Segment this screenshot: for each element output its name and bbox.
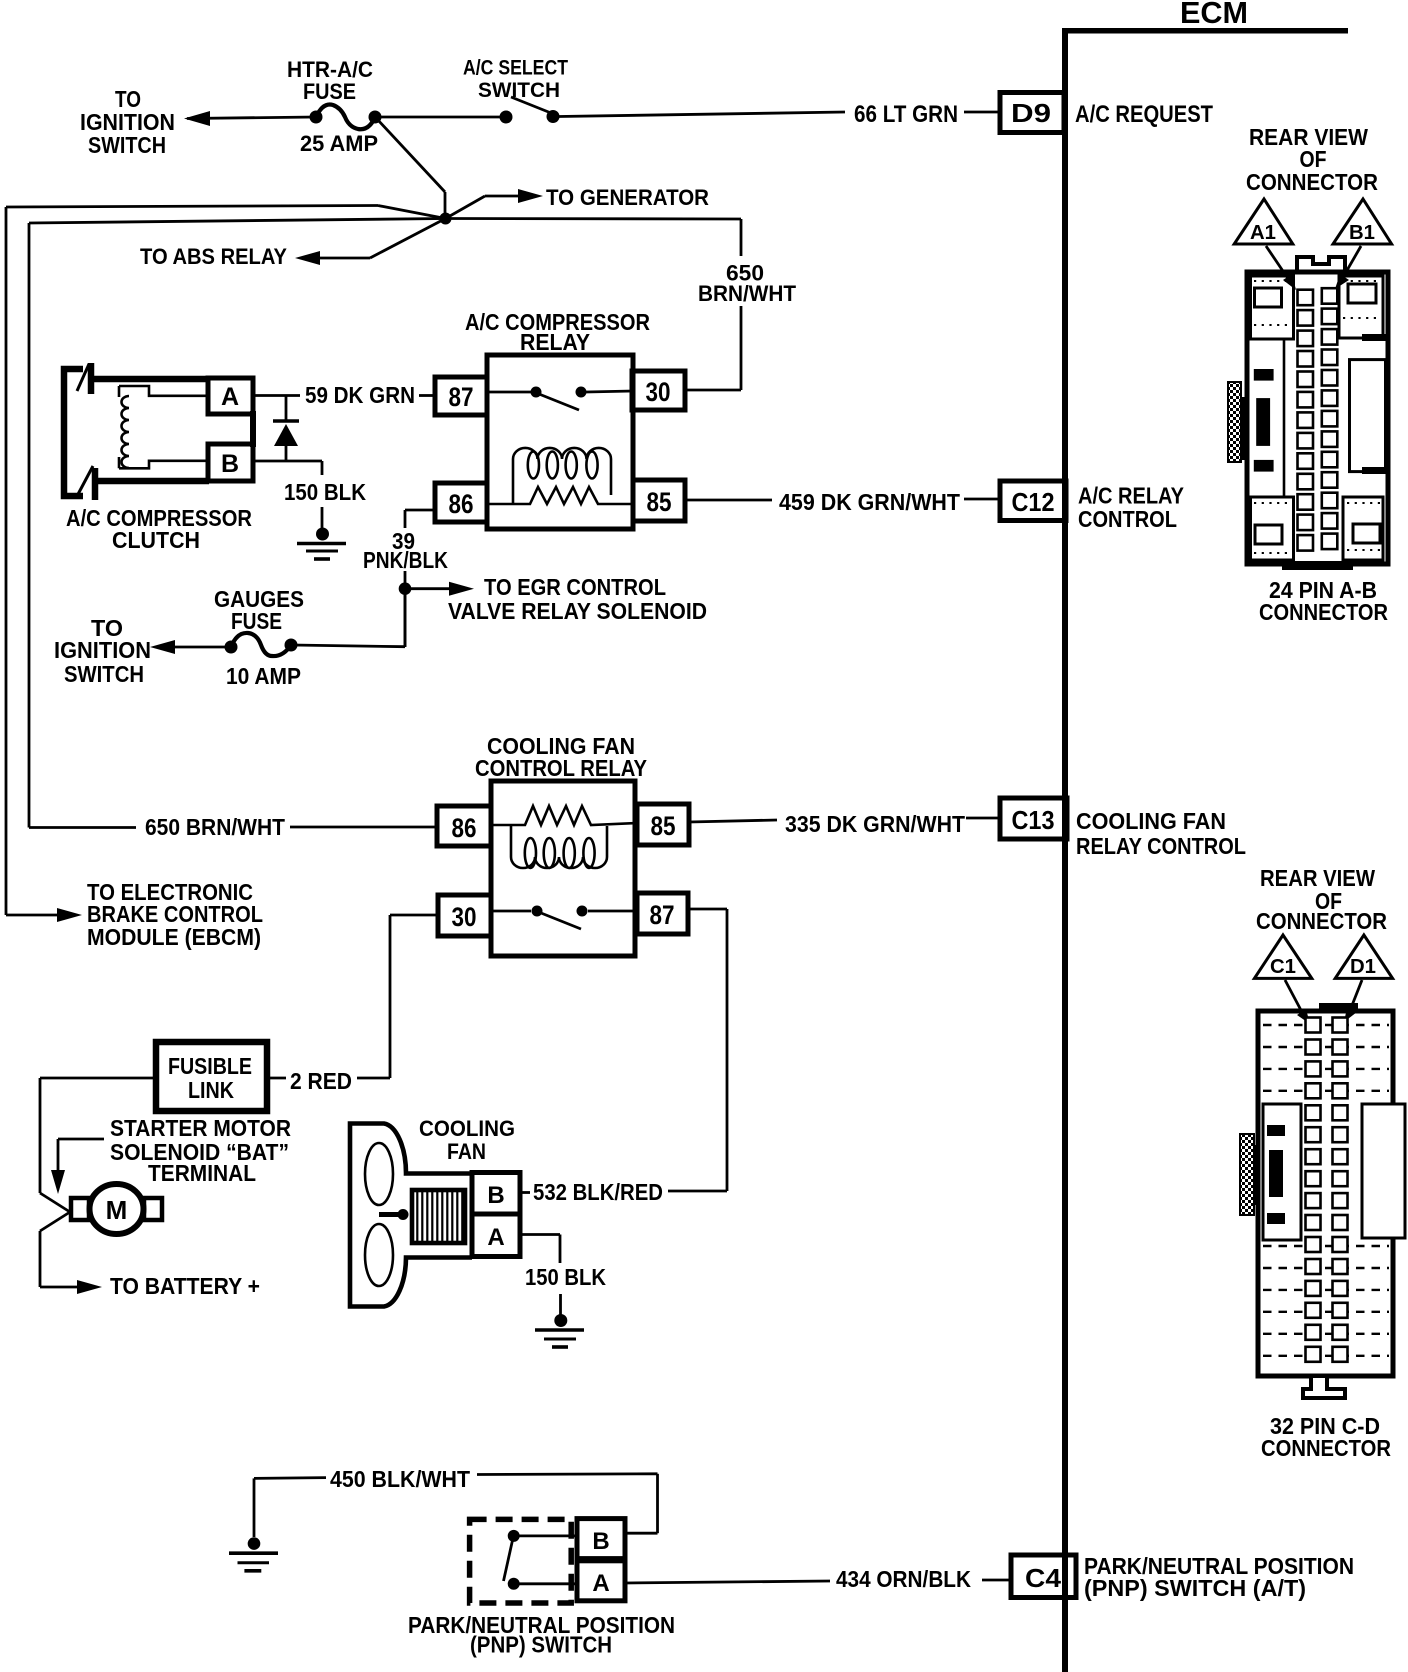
- relay contact switch (cooling fan relay): [491, 906, 637, 930]
- label 24 PIN A-B CONNECTOR: [1259, 577, 1388, 625]
- clutch A-B terminal link: [250, 411, 256, 447]
- fusible link F3: [156, 1042, 267, 1111]
- svg-text:D1: D1: [1350, 956, 1376, 978]
- svg-text:A: A: [221, 383, 239, 411]
- wire 335 DK GRN/WHT: pin 85 to C13: [689, 811, 1000, 837]
- pin pointer D1 (triangle): [1335, 935, 1392, 1022]
- relay contact switch (A/C compressor relay): [487, 387, 633, 411]
- pin 85 (A/C compressor relay): [633, 480, 685, 521]
- relay K1 A/C COMPRESSOR RELAY: [465, 309, 650, 529]
- svg-text:FUSE: FUSE: [231, 608, 282, 634]
- switch A/C SELECT: [463, 57, 568, 124]
- svg-text:(PNP) SWITCH (A/T): (PNP) SWITCH (A/T): [1084, 1575, 1306, 1601]
- A/C compressor clutch pulley bracket: [64, 363, 209, 500]
- svg-text:30: 30: [646, 377, 671, 407]
- svg-text:A/C RELAY: A/C RELAY: [1078, 483, 1184, 509]
- svg-text:CONNECTOR: CONNECTOR: [1256, 908, 1387, 934]
- svg-text:D9: D9: [1011, 98, 1051, 128]
- PNP terminal A: [577, 1561, 625, 1601]
- 24 pin connector pin cavities: [1298, 288, 1338, 550]
- 32 pin C-D connector body: [1258, 1003, 1393, 1376]
- svg-text:COOLING: COOLING: [419, 1116, 515, 1141]
- svg-text:C12: C12: [1012, 487, 1055, 517]
- svg-text:TERMINAL: TERMINAL: [148, 1160, 256, 1186]
- ground G3 (450 BLK/WHT): [229, 1537, 278, 1571]
- svg-text:TO BATTERY +: TO BATTERY +: [110, 1273, 260, 1299]
- diode CR1 across clutch coil: [273, 396, 299, 462]
- svg-text:B: B: [221, 450, 239, 478]
- wire: junction to 650 BRN/WHT bus: [29, 219, 446, 828]
- label TO ELECTRONIC BRAKE CONTROL MODULE (EBCM): [87, 879, 263, 950]
- pin pointer B1 (triangle): [1333, 199, 1392, 289]
- svg-text:10 AMP: 10 AMP: [226, 663, 301, 689]
- svg-text:RELAY: RELAY: [520, 329, 590, 355]
- node: 39 PNK/BLK splice: [399, 582, 412, 595]
- clutch terminal B: [208, 444, 253, 481]
- svg-text:B1: B1: [1349, 222, 1375, 244]
- cooling fan shroud: [350, 1124, 472, 1307]
- 24 pin connector bottom key tab: [1282, 561, 1353, 570]
- label PARK/NEUTRAL POSITION (PNP) SWITCH: [408, 1612, 675, 1658]
- svg-text:FUSE: FUSE: [303, 79, 356, 104]
- ECM pin C4: [1011, 1555, 1076, 1598]
- label COOLING FAN RELAY CONTROL: [1076, 808, 1246, 859]
- pin 30 (A/C compressor relay): [632, 371, 685, 410]
- svg-text:150 BLK: 150 BLK: [284, 479, 366, 505]
- ECM pin C12: [1000, 481, 1066, 521]
- fan terminal block: [472, 1173, 520, 1257]
- svg-text:SWITCH: SWITCH: [88, 132, 166, 158]
- relay coil (A/C compressor relay): [487, 448, 633, 504]
- svg-text:TO GENERATOR: TO GENERATOR: [546, 185, 709, 210]
- fan hub shaft: [379, 1209, 409, 1220]
- svg-text:C4: C4: [1025, 1563, 1062, 1593]
- wire+arrow TO EGR CONTROL VALVE RELAY SOLENOID: [411, 574, 707, 624]
- wire 450 BLK/WHT to ground: [254, 1466, 658, 1537]
- svg-text:FAN: FAN: [447, 1139, 486, 1164]
- wire: clutch B to ground: [253, 461, 322, 528]
- svg-text:459 DK GRN/WHT: 459 DK GRN/WHT: [779, 489, 960, 515]
- svg-text:66 LT GRN: 66 LT GRN: [854, 101, 958, 128]
- ECM module boundary line: [1062, 28, 1348, 1672]
- node: main splice junction: [440, 213, 452, 225]
- svg-text:COOLING FAN: COOLING FAN: [1076, 808, 1226, 834]
- 32 pin connector pin cavities: [1306, 1018, 1348, 1362]
- wire 39 PNK/BLK from pin 86: [363, 510, 448, 647]
- pin 86 (A/C compressor relay): [435, 483, 487, 522]
- wire 532 BLK/RED: fan B to relay pin 87: [520, 909, 727, 1205]
- wire 459 DK GRN/WHT: pin 85 to C12: [685, 489, 1000, 515]
- svg-text:PNK/BLK: PNK/BLK: [363, 547, 448, 573]
- wire 434 ORN/BLK: PNP A to C4: [625, 1566, 1011, 1592]
- svg-text:87: 87: [449, 382, 474, 412]
- 24 pin connector left latch detail: [1254, 339, 1284, 497]
- relay K2 COOLING FAN CONTROL RELAY: [475, 733, 647, 956]
- wire 650 BRN/WHT to pin 86: [29, 814, 437, 840]
- 32 pin connector bottom key tab: [1303, 1376, 1345, 1398]
- svg-text:IGNITION: IGNITION: [54, 637, 151, 663]
- 24 pin connector corner block top-right: [1339, 276, 1383, 338]
- label REAR VIEW OF CONNECTOR (32 pin): [1256, 865, 1387, 934]
- 32 pin connector right cavity: [1362, 1104, 1405, 1238]
- pin 86 (cooling fan relay): [437, 806, 491, 846]
- svg-text:A1: A1: [1250, 222, 1276, 244]
- wire: junction right to 650 BRN/WHT drop: [446, 219, 797, 391]
- relay coil (cooling fan relay): [491, 806, 637, 868]
- label 32 PIN C-D CONNECTOR: [1261, 1413, 1391, 1461]
- fan motor (hatched): [412, 1190, 465, 1243]
- ground G2 (fan 150 BLK): [535, 1314, 584, 1347]
- svg-text:A: A: [487, 1224, 504, 1251]
- ECM pin C13: [1000, 798, 1067, 839]
- svg-text:532 BLK/RED: 532 BLK/RED: [533, 1179, 663, 1205]
- svg-text:VALVE RELAY SOLENOID: VALVE RELAY SOLENOID: [448, 598, 707, 624]
- wire: junction to left bus (EBCM feed): [6, 206, 446, 916]
- svg-text:M: M: [106, 1195, 128, 1225]
- svg-text:(PNP) SWITCH: (PNP) SWITCH: [470, 1632, 612, 1658]
- label A/C COMPRESSOR CLUTCH: [66, 505, 252, 553]
- wire: ignition feed to HTR-A/C fuse: [187, 117, 316, 119]
- wire: fan A to ground: [520, 1235, 561, 1316]
- svg-text:SWITCH: SWITCH: [478, 79, 560, 102]
- wire: pin 30 to 2 RED / fusible link: [268, 915, 438, 1094]
- PNP terminal B: [577, 1519, 625, 1559]
- A/C compressor clutch coil: [119, 386, 208, 468]
- 24 pin connector right cavity: [1350, 334, 1389, 474]
- svg-text:2 RED: 2 RED: [290, 1068, 352, 1094]
- fuse GAUGES 10 AMP: [214, 586, 304, 689]
- wire: fuse to A/C select switch: [375, 116, 500, 119]
- pin pointer C1 (triangle): [1254, 935, 1311, 1024]
- pin 87 (cooling fan relay): [637, 893, 688, 934]
- svg-text:85: 85: [651, 811, 676, 841]
- label TO IGNITION SWITCH (top): [80, 86, 175, 158]
- arrow TO BATTERY +: [77, 1280, 102, 1294]
- svg-text:CLUTCH: CLUTCH: [112, 527, 200, 553]
- 32 pin connector side lock (hatched): [1240, 1134, 1260, 1215]
- 24 pin connector side lock (hatched): [1228, 382, 1249, 462]
- label STARTER MOTOR SOLENOID "BAT" TERMINAL: [110, 1115, 291, 1186]
- 24 pin A-B connector body: [1247, 257, 1388, 564]
- fan blade lower: [365, 1224, 393, 1286]
- svg-text:150 BLK: 150 BLK: [525, 1264, 606, 1290]
- svg-text:B: B: [487, 1182, 504, 1209]
- svg-text:TO EGR CONTROL: TO EGR CONTROL: [484, 574, 666, 600]
- starter motor M: [71, 1184, 162, 1234]
- wire 59 DK GRN: clutch A to pin 87: [253, 382, 435, 408]
- svg-text:85: 85: [647, 487, 672, 517]
- 24 pin connector corner block top-left: [1251, 276, 1294, 339]
- svg-text:59 DK GRN: 59 DK GRN: [305, 382, 415, 408]
- ECM pin D9: [1000, 93, 1064, 133]
- 24 pin connector corner block bottom-left: [1251, 497, 1294, 560]
- svg-text:TO ABS RELAY: TO ABS RELAY: [140, 244, 287, 269]
- label REAR VIEW OF CONNECTOR (24 pin): [1246, 124, 1378, 195]
- arrow to ignition switch: [184, 111, 210, 126]
- svg-text:CONNECTOR: CONNECTOR: [1261, 1435, 1391, 1461]
- svg-text:30: 30: [452, 902, 477, 932]
- wire+arrow TO GENERATOR: [446, 185, 710, 219]
- svg-text:CONNECTOR: CONNECTOR: [1259, 599, 1388, 625]
- svg-text:86: 86: [452, 813, 477, 843]
- svg-text:450 BLK/WHT: 450 BLK/WHT: [330, 1466, 470, 1492]
- switch S1 PARK/NEUTRAL POSITION (dashed enclosure): [470, 1519, 577, 1603]
- wire: fusible link to starter motor solenoid and battery: [40, 1078, 156, 1287]
- svg-text:86: 86: [449, 489, 474, 519]
- svg-text:A/C SELECT: A/C SELECT: [463, 57, 568, 80]
- svg-text:335 DK GRN/WHT: 335 DK GRN/WHT: [785, 811, 965, 837]
- label COOLING FAN: [419, 1116, 515, 1164]
- wire+arrow TO ABS RELAY: [140, 219, 446, 270]
- pin 85 (cooling fan relay): [637, 804, 689, 845]
- svg-text:STARTER MOTOR: STARTER MOTOR: [110, 1115, 291, 1141]
- 24 pin connector corner block bottom-right: [1343, 497, 1383, 560]
- svg-text:BRN/WHT: BRN/WHT: [698, 281, 797, 306]
- svg-text:C13: C13: [1012, 805, 1055, 835]
- 32 pin connector dashed seal rows: [1263, 1025, 1389, 1356]
- svg-text:87: 87: [650, 900, 675, 930]
- svg-text:25 AMP: 25 AMP: [300, 131, 378, 156]
- wire 66 LT GRN to D9: [559, 101, 998, 128]
- svg-text:B: B: [592, 1528, 609, 1555]
- label PARK/NEUTRAL POSITION (PNP) SWITCH (A/T): [1084, 1553, 1354, 1601]
- svg-text:650 BRN/WHT: 650 BRN/WHT: [145, 814, 285, 840]
- pin 87 (A/C compressor relay): [435, 377, 487, 415]
- svg-text:C1: C1: [1270, 956, 1296, 978]
- label A/C RELAY CONTROL: [1078, 483, 1184, 533]
- svg-text:LINK: LINK: [188, 1077, 234, 1103]
- wire+arrow to ignition switch (gauges): [54, 615, 225, 687]
- svg-text:ECM: ECM: [1180, 0, 1248, 30]
- svg-text:MODULE (EBCM): MODULE (EBCM): [87, 924, 261, 950]
- svg-text:RELAY CONTROL: RELAY CONTROL: [1076, 833, 1246, 859]
- fan blade upper: [365, 1143, 393, 1205]
- pin pointer A1 (triangle): [1234, 199, 1296, 290]
- wire: splice down to gauges fuse line: [292, 589, 405, 647]
- ground G1 (clutch 150 BLK): [297, 528, 346, 560]
- svg-text:CONTROL: CONTROL: [1078, 506, 1177, 532]
- pin 30 (cooling fan relay): [438, 895, 491, 936]
- pointer arrow to starter motor terminal: [51, 1139, 104, 1194]
- clutch terminal A: [208, 378, 253, 414]
- svg-text:CONTROL RELAY: CONTROL RELAY: [475, 755, 647, 781]
- svg-text:A: A: [592, 1570, 609, 1597]
- fuse HTR-A/C 25 AMP: [287, 57, 382, 156]
- svg-text:A/C REQUEST: A/C REQUEST: [1075, 101, 1213, 128]
- 32 pin connector left cavity: [1263, 1104, 1301, 1240]
- svg-text:SWITCH: SWITCH: [64, 661, 144, 687]
- wire: fuse output down to junction: [377, 119, 445, 219]
- svg-text:FUSIBLE: FUSIBLE: [168, 1053, 252, 1079]
- svg-text:434 ORN/BLK: 434 ORN/BLK: [836, 1566, 971, 1592]
- arrow TO ELECTRONIC BRAKE CONTROL MODULE: [57, 908, 82, 922]
- svg-text:CONNECTOR: CONNECTOR: [1246, 169, 1378, 195]
